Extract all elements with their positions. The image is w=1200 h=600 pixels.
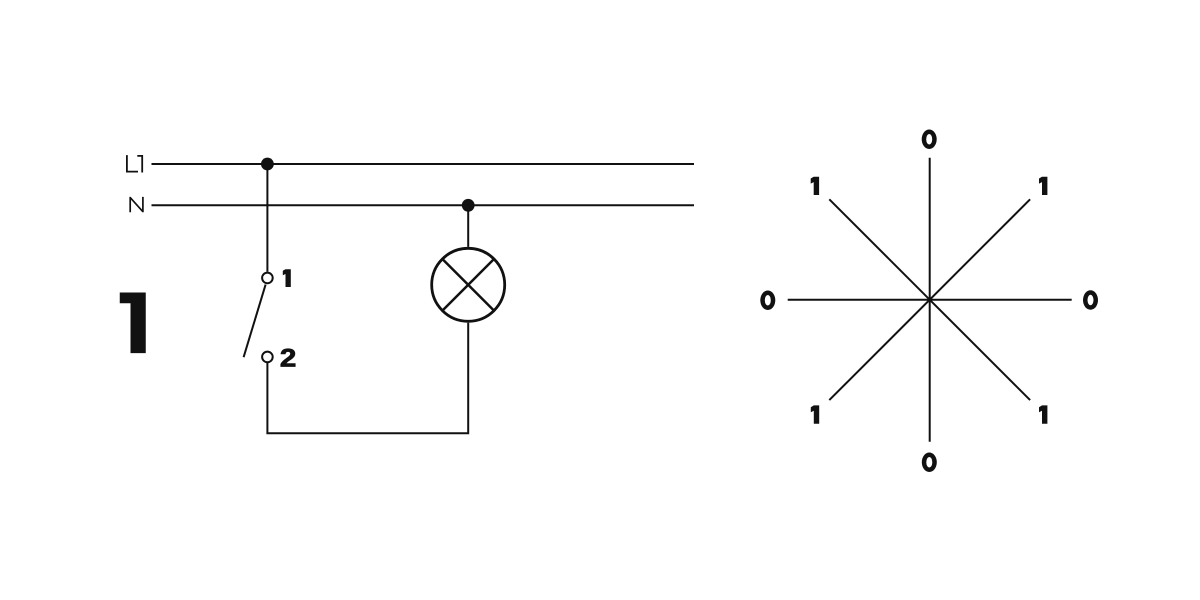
switch S1 contact 2 terminal	[262, 352, 273, 363]
wire N	[152, 204, 695, 206]
net label N	[130, 197, 143, 212]
wire from N junction down to lamp top	[467, 205, 469, 247]
switch S1 blade (open)	[244, 285, 266, 358]
diagonal ray NE-SW	[829, 199, 1030, 400]
wire L1	[152, 163, 695, 165]
svg-text:2: 2	[280, 344, 296, 372]
wire from contact 2 down and across to lamp bottom	[267, 323, 468, 433]
label 1 bottom-right	[1039, 405, 1047, 423]
pin label 1	[283, 269, 291, 287]
label 1 top-right	[1039, 177, 1047, 195]
label 0 bottom	[922, 453, 937, 473]
horizontal ray of position diagram	[788, 299, 1072, 301]
label 0 left	[760, 291, 775, 311]
junction on L1	[261, 158, 274, 171]
junction on N	[462, 199, 475, 212]
net label L1	[127, 155, 142, 172]
switch S1 contact 1 terminal	[262, 273, 273, 284]
wire from L1 junction down to switch contact 1	[266, 164, 268, 272]
label 0 right	[1083, 290, 1098, 310]
label 1 top-left	[811, 177, 819, 195]
step number 1	[120, 293, 146, 354]
lamp E1	[432, 248, 505, 321]
diagonal ray NW-SE	[829, 199, 1030, 400]
vertical ray of position diagram	[929, 158, 931, 442]
label 0 top	[922, 130, 937, 150]
label 1 bottom-left	[811, 405, 819, 423]
